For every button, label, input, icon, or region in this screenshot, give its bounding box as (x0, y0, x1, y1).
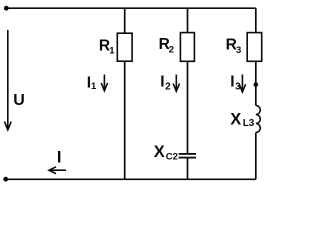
svg-text:I: I (57, 149, 62, 167)
wire R3 branch bottom (255, 133, 257, 180)
wire R3 branch middle (255, 61, 257, 105)
arrow I3 (down) (239, 75, 245, 93)
wire bottom bus (6, 178, 256, 180)
wire R1 branch bottom (124, 61, 126, 179)
resistor R3 (247, 33, 262, 62)
resistor R2 (180, 33, 194, 62)
capacitor C2 plates (179, 153, 196, 159)
node top-left terminal (4, 6, 9, 11)
wire R3 branch top (255, 8, 257, 32)
wire top bus (6, 7, 256, 9)
wire R2 branch bottom (187, 158, 189, 179)
wire R2 branch top (187, 8, 189, 32)
resistor R1 (117, 33, 132, 61)
arrow I1 (down) (101, 75, 107, 91)
wire R1 branch top (124, 8, 126, 33)
arrow I2 (down) (173, 75, 179, 92)
wire R2 branch middle (187, 61, 189, 153)
arrow I (total current, left) (49, 167, 66, 174)
node junction on R3 branch (254, 82, 259, 87)
node bottom-left terminal (3, 177, 8, 182)
arrow U (voltage, down) (4, 30, 11, 130)
svg-text:U: U (13, 92, 25, 109)
inductor L3 coil (256, 106, 260, 133)
